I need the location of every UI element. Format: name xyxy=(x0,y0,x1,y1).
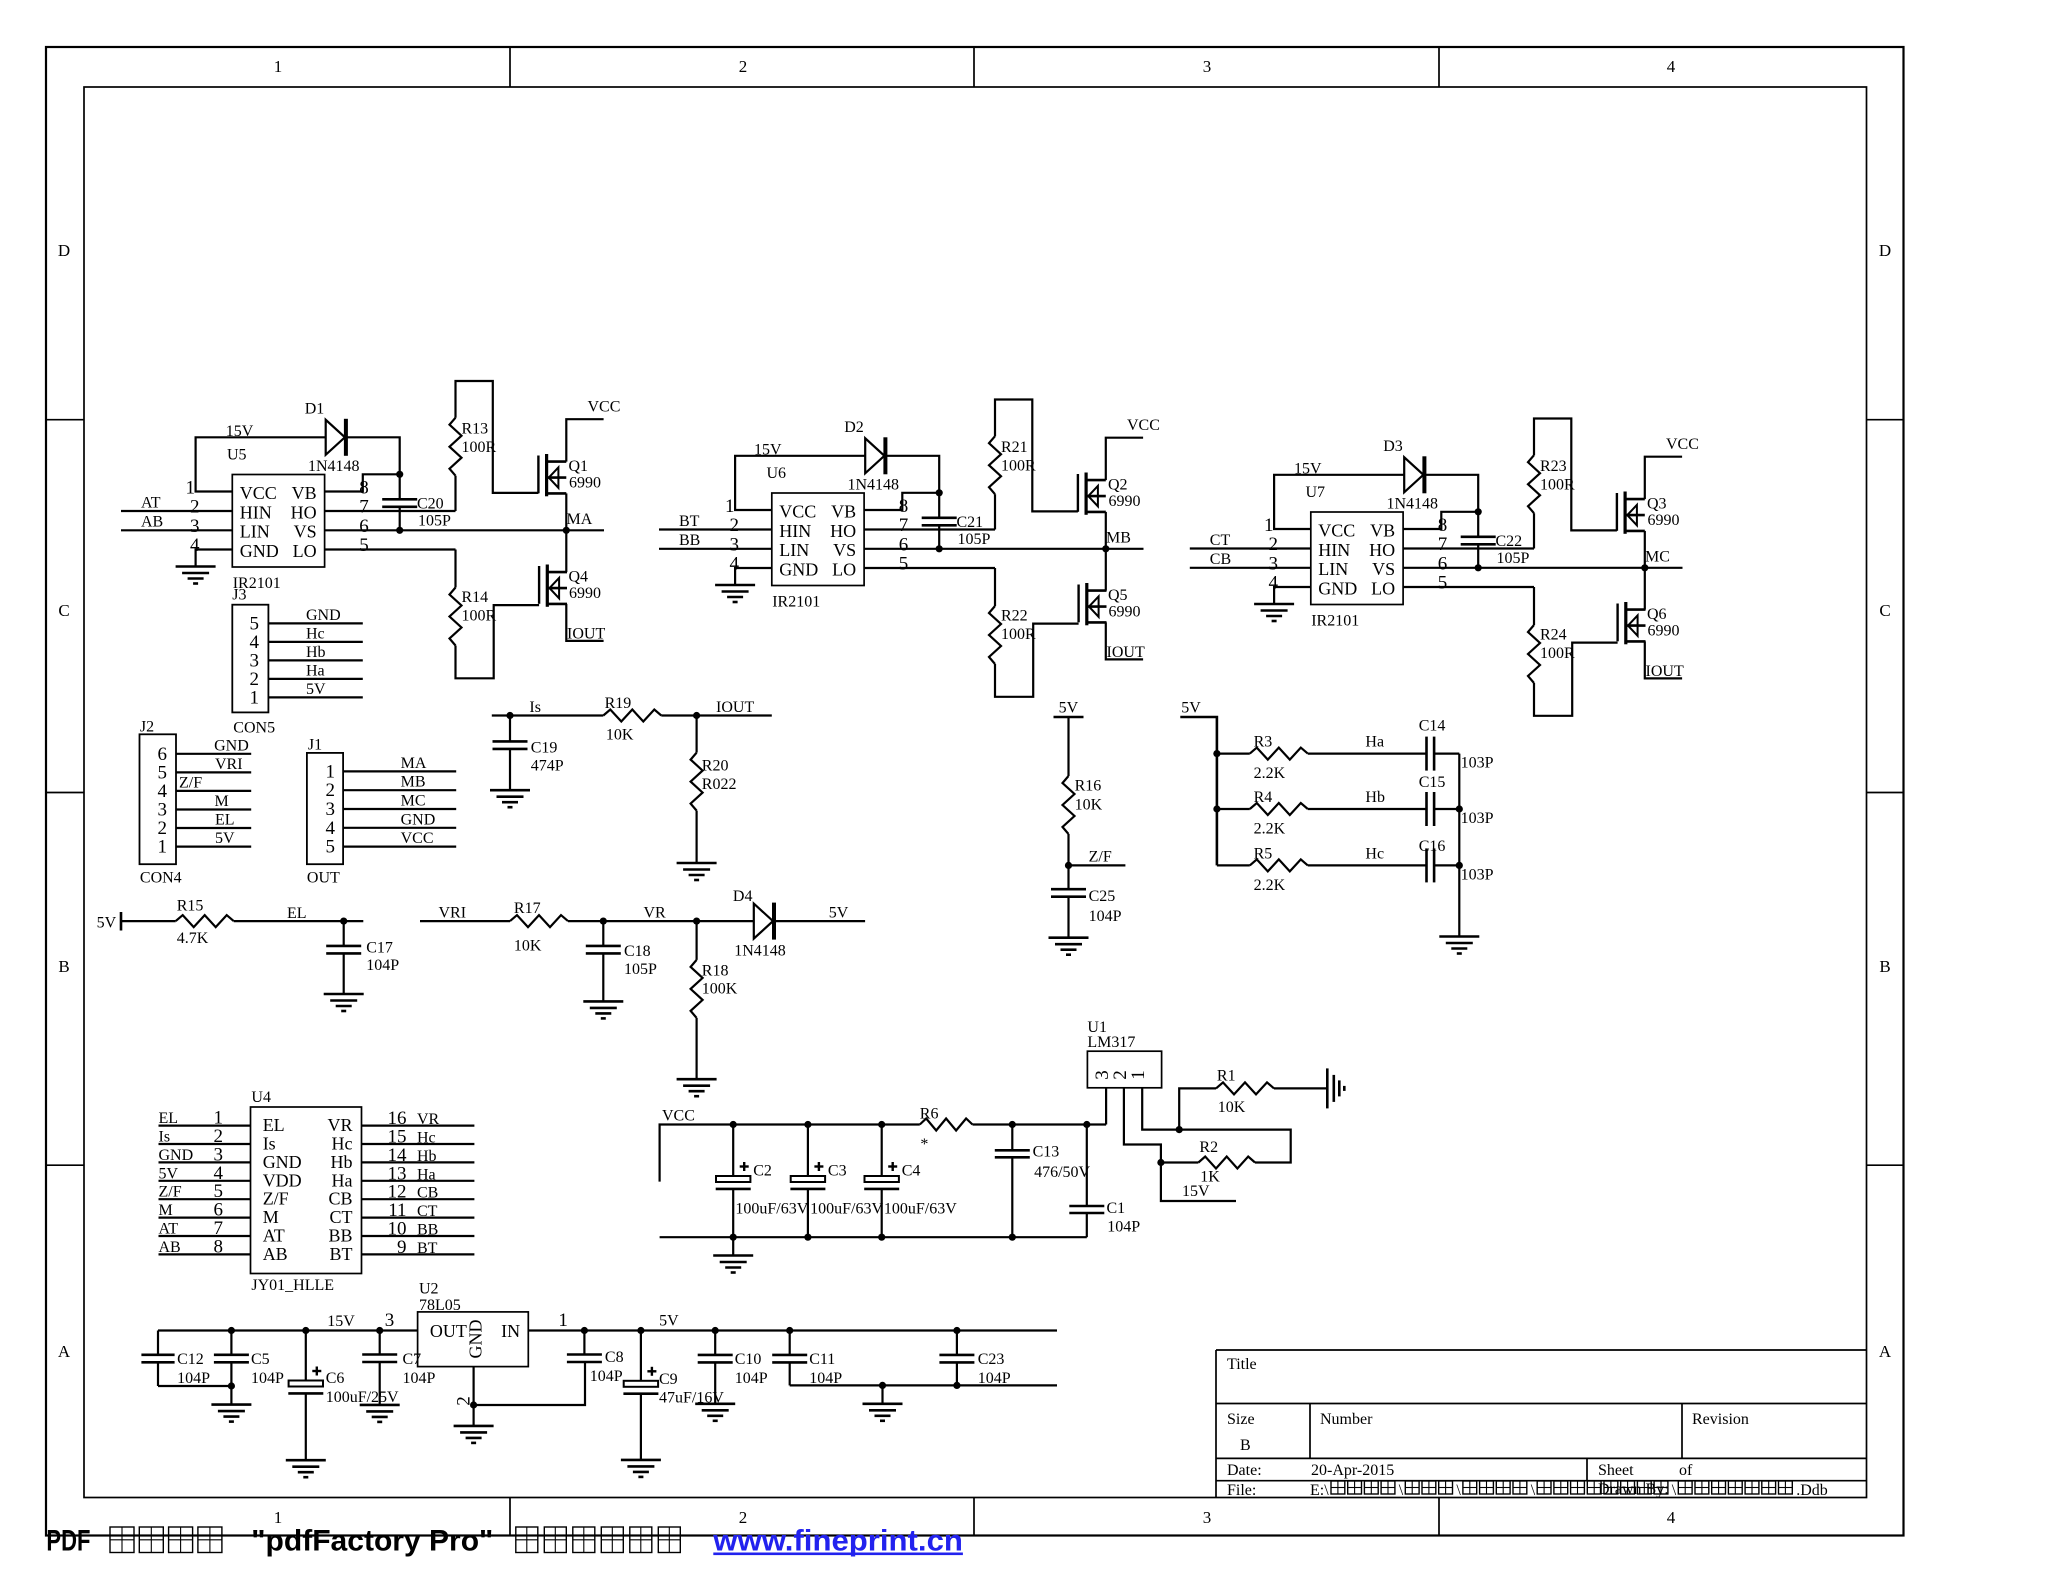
zone labels rows left xyxy=(58,241,71,1361)
power VCC label xyxy=(1127,417,1160,434)
wire LO to lower gate resistor xyxy=(864,567,995,569)
ground R1 xyxy=(1327,1068,1344,1108)
wire U1 pin3 to VCC xyxy=(1105,1088,1107,1125)
junction VR / R18 xyxy=(693,918,700,925)
svg-text:CON5: CON5 xyxy=(233,720,275,737)
svg-text:R17: R17 xyxy=(514,900,541,917)
junction VR / C18 xyxy=(600,918,607,925)
wire Q3 drain to VCC xyxy=(1645,457,1682,499)
svg-text:IR2101: IR2101 xyxy=(772,594,820,611)
svg-text:D: D xyxy=(58,241,70,260)
capacitor C11 xyxy=(772,1331,842,1388)
svg-text:CB: CB xyxy=(417,1185,438,1202)
svg-text:LIN: LIN xyxy=(1318,559,1348,579)
wire D3 cathode to VB node xyxy=(1426,475,1478,512)
svg-text:C19: C19 xyxy=(531,740,558,757)
net 15V label (U7 block) xyxy=(1294,461,1322,478)
svg-text:VRI: VRI xyxy=(215,756,243,773)
svg-text:3: 3 xyxy=(1203,1508,1212,1527)
wire hall capacitor bus xyxy=(1458,754,1460,937)
wire U4 pin 4 net 5V xyxy=(159,1163,251,1184)
ground C17 xyxy=(324,994,364,1011)
net AB input wire xyxy=(121,514,232,531)
wire U5 GND pin xyxy=(196,550,233,567)
wire U4 pin 6 net M xyxy=(159,1200,251,1221)
wire J1 pin 4 net GND xyxy=(343,811,456,828)
svg-text:IOUT: IOUT xyxy=(1646,663,1684,680)
svg-text:B: B xyxy=(1240,1437,1251,1454)
svg-text:6990: 6990 xyxy=(1648,512,1680,529)
node MC xyxy=(1641,549,1670,572)
svg-text:R19: R19 xyxy=(605,695,632,712)
wire U2 pin1 IN to 5V rail xyxy=(528,1310,1057,1331)
capacitor C21 xyxy=(922,514,991,548)
wire D1 cathode to VB node xyxy=(348,437,400,474)
power VCC label xyxy=(588,399,621,416)
svg-text:8: 8 xyxy=(359,477,369,498)
svg-text:Hc: Hc xyxy=(1365,846,1384,863)
svg-text:103P: 103P xyxy=(1461,810,1494,827)
svg-text:4.7K: 4.7K xyxy=(177,930,209,947)
ground C10 xyxy=(695,1404,735,1421)
svg-text:Hc: Hc xyxy=(417,1130,436,1147)
ground R18 xyxy=(677,1079,717,1096)
wire U4 pin 13 net Ha xyxy=(362,1163,475,1184)
svg-text:A: A xyxy=(58,1342,71,1361)
svg-text:VS: VS xyxy=(294,522,317,542)
svg-text:104P: 104P xyxy=(177,1370,210,1387)
wire J2 pin 2 net EL xyxy=(176,812,251,829)
transistor Q3 xyxy=(1617,492,1680,534)
wire 15V rail left xyxy=(158,1313,418,1331)
zone labels columns bottom xyxy=(274,1508,1676,1527)
wire C5 gnd stub xyxy=(230,1386,232,1405)
transistor Q6 xyxy=(1618,602,1680,644)
capacitor C12 xyxy=(141,1351,210,1387)
svg-text:2.2K: 2.2K xyxy=(1254,821,1286,838)
svg-text:EL: EL xyxy=(263,1115,285,1135)
IC U1 LM317 xyxy=(1087,1019,1161,1088)
svg-text:C17: C17 xyxy=(366,940,393,957)
wire D4 to 5V xyxy=(776,905,865,922)
svg-text:R5: R5 xyxy=(1254,845,1273,862)
svg-text:103P: 103P xyxy=(1461,755,1494,772)
wire net Z/F xyxy=(1069,849,1126,866)
svg-text:MC: MC xyxy=(1645,549,1670,566)
svg-text:LIN: LIN xyxy=(240,522,270,542)
junction bus C15 xyxy=(1456,805,1463,812)
junction R4 tap xyxy=(1213,805,1220,812)
svg-text:U5: U5 xyxy=(227,447,247,464)
svg-text:CT: CT xyxy=(1210,532,1231,549)
junction Z/F xyxy=(1065,862,1072,869)
svg-text:U2: U2 xyxy=(419,1281,439,1298)
svg-text:GND: GND xyxy=(466,1320,486,1359)
wire Q6 source to IOUT xyxy=(1645,641,1682,678)
capacitor C14 xyxy=(1419,718,1494,772)
svg-text:2: 2 xyxy=(739,57,748,76)
svg-text:C10: C10 xyxy=(735,1351,762,1368)
svg-text:6990: 6990 xyxy=(1109,493,1141,510)
svg-text:BT: BT xyxy=(329,1244,352,1264)
resistor R18 xyxy=(691,921,738,1079)
pin numbers U5 right xyxy=(359,477,369,556)
svg-text:5V: 5V xyxy=(306,681,326,698)
wire U7 GND pin xyxy=(1274,587,1311,604)
svg-text:5: 5 xyxy=(326,837,336,858)
svg-text:D2: D2 xyxy=(844,419,864,436)
capacitor C25 xyxy=(1051,865,1122,937)
svg-text:HO: HO xyxy=(830,521,856,541)
svg-text:GND: GND xyxy=(306,607,341,624)
svg-text:2.2K: 2.2K xyxy=(1254,765,1286,782)
wire R21 loop to Q2 gate xyxy=(995,400,1078,512)
svg-text:J3: J3 xyxy=(232,587,246,604)
svg-text:4: 4 xyxy=(1667,57,1676,76)
svg-text:100R: 100R xyxy=(1001,626,1036,643)
svg-text:1: 1 xyxy=(1264,515,1274,536)
svg-text:VCC: VCC xyxy=(1127,417,1160,434)
svg-text:100R: 100R xyxy=(462,608,497,625)
wire J1 pin 2 net MB xyxy=(343,774,456,791)
resistor R20 xyxy=(691,716,737,864)
capacitor C7 xyxy=(362,1331,435,1405)
svg-text:R4: R4 xyxy=(1254,789,1273,806)
ground C18 xyxy=(583,1001,623,1018)
svg-text:R1: R1 xyxy=(1217,1068,1236,1085)
junction C7 top xyxy=(376,1310,394,1334)
svg-text:MB: MB xyxy=(401,774,426,791)
wire pin2 to C8 bottom xyxy=(474,1362,585,1405)
junction gnd C3 xyxy=(804,1234,811,1241)
IC U2 78L05 xyxy=(418,1281,529,1367)
svg-text:104P: 104P xyxy=(251,1370,284,1387)
svg-text:2.2K: 2.2K xyxy=(1254,877,1286,894)
svg-text:R14: R14 xyxy=(462,589,489,606)
wire Q4 drain to MA xyxy=(565,530,567,572)
wire J2 pin 1 net 5V xyxy=(176,830,251,847)
svg-text:J2: J2 xyxy=(140,719,154,736)
wire LO to lower gate resistor xyxy=(1403,586,1534,588)
svg-text:Title: Title xyxy=(1227,1356,1257,1373)
title block Drawn By xyxy=(1598,1481,1669,1498)
svg-text:B: B xyxy=(58,957,69,976)
svg-text:J1: J1 xyxy=(308,737,322,754)
wire VR line xyxy=(568,905,754,922)
svg-text:D1: D1 xyxy=(305,401,325,418)
border column ticks top xyxy=(510,47,1439,87)
wire Q4 source to IOUT xyxy=(566,604,603,641)
svg-text:Q2: Q2 xyxy=(1108,477,1128,494)
svg-text:U4: U4 xyxy=(251,1089,271,1106)
wire J3 pin 4 net Hc xyxy=(268,625,362,642)
wire C11/C23 bottom bus xyxy=(790,1384,1057,1386)
svg-text:6990: 6990 xyxy=(569,475,601,492)
wire 5V corner down xyxy=(1180,717,1217,865)
net AT input wire xyxy=(121,495,232,512)
border column ticks bottom xyxy=(510,1498,1439,1536)
ground U2 xyxy=(454,1405,494,1443)
svg-text:of: of xyxy=(1679,1462,1693,1479)
capacitor C5 xyxy=(214,1331,284,1388)
svg-text:1: 1 xyxy=(725,496,735,517)
svg-text:R23: R23 xyxy=(1540,458,1567,475)
wire C12/C5 bottom bar xyxy=(158,1385,231,1387)
wire R2 loop xyxy=(1179,1130,1291,1163)
wire capacitor to VS line xyxy=(938,525,940,549)
svg-text:10K: 10K xyxy=(514,938,542,955)
svg-text:7: 7 xyxy=(359,497,369,518)
svg-text:476/50V: 476/50V xyxy=(1034,1164,1090,1181)
svg-text:Is: Is xyxy=(263,1134,276,1154)
capacitor C17 xyxy=(326,921,399,994)
wire Q5 source to IOUT xyxy=(1106,622,1143,659)
junction VS line xyxy=(396,527,403,534)
net CB input wire xyxy=(1190,551,1311,568)
svg-text:EL: EL xyxy=(215,812,235,829)
svg-text:100R: 100R xyxy=(462,439,497,456)
capacitor C22 xyxy=(1461,533,1530,567)
svg-text:M: M xyxy=(215,793,229,810)
wire J2 pin 5 net VRI xyxy=(176,756,251,773)
node MB xyxy=(1102,530,1131,553)
capacitor C10 xyxy=(698,1331,768,1404)
svg-text:104P: 104P xyxy=(735,1370,768,1387)
svg-text:3: 3 xyxy=(190,516,200,537)
svg-text:EL: EL xyxy=(287,905,307,922)
svg-text:Sheet: Sheet xyxy=(1598,1462,1634,1479)
svg-text:Number: Number xyxy=(1320,1411,1373,1428)
wire U4 pin 3 net GND xyxy=(159,1144,251,1165)
svg-text:5V: 5V xyxy=(1181,700,1201,717)
junction R3 tap xyxy=(1213,750,1220,757)
power 5V (hall filters) xyxy=(1181,700,1201,717)
junction C11 top xyxy=(786,1327,793,1334)
junction gnd C2 xyxy=(730,1234,737,1241)
svg-text:R13: R13 xyxy=(462,421,489,438)
capacitor C8 xyxy=(567,1331,624,1386)
svg-text:CON4: CON4 xyxy=(140,870,182,887)
svg-text:R20: R20 xyxy=(702,758,729,775)
ground hall bus xyxy=(1439,937,1479,954)
svg-text:Z/F: Z/F xyxy=(159,1184,182,1201)
wire pin8 VB jog xyxy=(1403,512,1478,529)
svg-text:Q6: Q6 xyxy=(1647,606,1667,623)
svg-text:5V: 5V xyxy=(659,1313,679,1330)
wire U4 pin 1 net EL xyxy=(159,1108,251,1129)
svg-text:100uF/63V: 100uF/63V xyxy=(735,1201,808,1218)
svg-text:20-Apr-2015: 20-Apr-2015 xyxy=(1311,1462,1394,1479)
svg-text:Hb: Hb xyxy=(417,1148,437,1165)
svg-text:1: 1 xyxy=(1128,1070,1149,1080)
wire 15V to U5 pin1 xyxy=(196,437,326,491)
junction C4 tap xyxy=(878,1121,885,1128)
net IOUT label xyxy=(1646,663,1684,680)
svg-text:3: 3 xyxy=(1269,553,1279,574)
transistor Q1 xyxy=(538,454,601,496)
connector J1 OUT xyxy=(307,737,343,887)
svg-text:D3: D3 xyxy=(1383,438,1403,455)
power 5V tick (R15) xyxy=(97,912,121,932)
junction C9 top xyxy=(637,1327,644,1334)
svg-text:VR: VR xyxy=(417,1111,440,1128)
svg-text:100uF/63V: 100uF/63V xyxy=(884,1201,957,1218)
wire Q1 source to MA xyxy=(565,493,567,530)
svg-text:5: 5 xyxy=(1438,573,1448,594)
svg-text:105P: 105P xyxy=(418,513,451,530)
wire U4 pin 9 net BT xyxy=(362,1237,475,1258)
svg-text:R21: R21 xyxy=(1001,439,1028,456)
wire VB node to capacitor xyxy=(399,474,401,499)
svg-text:6: 6 xyxy=(899,534,909,555)
svg-text:U6: U6 xyxy=(767,465,787,482)
svg-text:AT: AT xyxy=(263,1226,285,1246)
resistor R22 xyxy=(989,568,1036,664)
capacitor C4 100uF/63V xyxy=(864,1125,957,1238)
wire U6 GND pin xyxy=(735,568,772,585)
svg-text:HIN: HIN xyxy=(1318,540,1350,560)
svg-text:IOUT: IOUT xyxy=(1107,644,1145,661)
svg-text:C4: C4 xyxy=(902,1162,921,1179)
wire 15V to U6 pin1 xyxy=(735,456,865,510)
svg-text:104P: 104P xyxy=(978,1370,1011,1387)
svg-text:6990: 6990 xyxy=(569,585,601,602)
svg-text:Z/F: Z/F xyxy=(263,1189,289,1209)
svg-text:15V: 15V xyxy=(1182,1183,1210,1200)
svg-text:Hb: Hb xyxy=(306,644,326,661)
svg-text:IR2101: IR2101 xyxy=(1311,613,1359,630)
wire U1 pin1 to R1/R2 node xyxy=(1142,1088,1179,1130)
svg-text:Size: Size xyxy=(1227,1411,1255,1428)
junction U2 gnd xyxy=(470,1401,477,1408)
svg-text:R22: R22 xyxy=(1001,608,1028,625)
junction R2 / 15V xyxy=(1157,1159,1164,1166)
svg-text:Hb: Hb xyxy=(1365,789,1385,806)
connector J2 CON4 xyxy=(140,719,182,887)
wire HO to gate resistor xyxy=(325,510,456,512)
svg-text:BB: BB xyxy=(328,1226,352,1246)
wire pin8 VB jog xyxy=(325,474,400,491)
wire C14 to bus xyxy=(1434,752,1459,754)
junction gnd C13 xyxy=(1009,1234,1016,1241)
svg-text:Hc: Hc xyxy=(332,1134,353,1154)
svg-text:AT: AT xyxy=(159,1221,179,1238)
svg-text:IOUT: IOUT xyxy=(716,699,754,716)
svg-text:VB: VB xyxy=(831,502,856,522)
ground U6 xyxy=(715,585,755,602)
svg-text:IN: IN xyxy=(501,1321,520,1341)
capacitor C13 xyxy=(995,1125,1091,1238)
svg-text:5: 5 xyxy=(359,535,369,556)
svg-text:LO: LO xyxy=(1371,578,1395,598)
svg-text:VR: VR xyxy=(644,905,667,922)
wire C12 branch xyxy=(157,1331,159,1387)
wire pin8 VB jog xyxy=(864,493,939,510)
ground U7 xyxy=(1254,604,1294,621)
svg-text:A: A xyxy=(1879,1342,1892,1361)
junction C5 bottom xyxy=(228,1382,235,1389)
wire C15 to bus xyxy=(1434,808,1459,810)
svg-text:GND: GND xyxy=(401,811,436,828)
svg-text:AB: AB xyxy=(141,514,163,531)
svg-text:GND: GND xyxy=(1318,578,1357,598)
svg-text:100uF/63V: 100uF/63V xyxy=(810,1201,883,1218)
junction C1 tap xyxy=(1083,1121,1090,1128)
svg-text:104P: 104P xyxy=(1107,1219,1140,1236)
svg-text:VB: VB xyxy=(1370,521,1395,541)
net IOUT label xyxy=(1107,644,1145,661)
svg-text:Ha: Ha xyxy=(306,662,325,679)
wire R5 to C16 net Hc xyxy=(1308,846,1427,866)
svg-text:Date:: Date: xyxy=(1227,1462,1262,1479)
wire U4 pin 16 net VR xyxy=(362,1108,475,1129)
wire LO to lower gate resistor xyxy=(325,548,456,550)
resistor R21 xyxy=(989,436,1036,529)
svg-text:C25: C25 xyxy=(1089,888,1116,905)
svg-text:10K: 10K xyxy=(606,727,634,744)
svg-text:\: \ xyxy=(1672,1482,1677,1499)
resistor R5 xyxy=(1217,845,1308,894)
footer link www.fineprint.cn xyxy=(712,1525,963,1558)
svg-text:HO: HO xyxy=(291,502,317,522)
svg-text:5V: 5V xyxy=(215,830,235,847)
net 5V label rail xyxy=(659,1313,679,1330)
svg-text:C1: C1 xyxy=(1107,1200,1126,1217)
svg-text:D: D xyxy=(1879,241,1891,260)
svg-text:VCC: VCC xyxy=(1318,521,1355,541)
svg-text:6990: 6990 xyxy=(1109,604,1141,621)
pin numbers U7 left xyxy=(1264,515,1279,594)
IC U6 IR2101 xyxy=(767,465,865,611)
border row ticks left xyxy=(46,420,84,1165)
svg-text:4: 4 xyxy=(1667,1508,1676,1527)
svg-text:C18: C18 xyxy=(624,943,651,960)
svg-text:1: 1 xyxy=(274,57,283,76)
svg-text:GND: GND xyxy=(214,737,249,754)
border row ticks right xyxy=(1867,420,1904,1165)
ground C9 xyxy=(621,1460,661,1477)
svg-text:1: 1 xyxy=(158,837,168,858)
svg-text:BT: BT xyxy=(679,513,700,530)
wire J2 pin 4 net Z/F xyxy=(176,774,251,791)
junction VB node xyxy=(1475,508,1482,515)
resistor R3 xyxy=(1217,734,1308,783)
svg-text:VCC: VCC xyxy=(588,399,621,416)
svg-text:VCC: VCC xyxy=(1666,436,1699,453)
wire Q2 source to MB xyxy=(1105,512,1107,549)
svg-text:1: 1 xyxy=(250,687,260,708)
svg-text:104P: 104P xyxy=(1089,908,1122,925)
svg-text:VCC: VCC xyxy=(662,1108,695,1125)
svg-text:CT: CT xyxy=(329,1207,352,1227)
junction C5 top xyxy=(228,1327,235,1334)
svg-text:C9: C9 xyxy=(659,1371,678,1388)
svg-text:Hc: Hc xyxy=(306,625,325,642)
svg-text:Ha: Ha xyxy=(1365,734,1384,751)
svg-text:100K: 100K xyxy=(702,981,738,998)
wire J1 pin 3 net MC xyxy=(343,793,456,810)
junction Is / C19 xyxy=(506,712,513,719)
wire U4 pin 11 net CT xyxy=(362,1200,475,1221)
svg-text:\: \ xyxy=(1399,1482,1404,1499)
wire R22 to Q5 gate xyxy=(995,624,1079,697)
svg-text:MC: MC xyxy=(401,793,426,810)
wire R6 to C13 / U1 xyxy=(973,1123,1107,1125)
svg-text:104P: 104P xyxy=(403,1370,436,1387)
wire capacitor to VS line xyxy=(1477,544,1479,568)
svg-text:C3: C3 xyxy=(828,1162,847,1179)
junction bus C16 xyxy=(1456,862,1463,869)
